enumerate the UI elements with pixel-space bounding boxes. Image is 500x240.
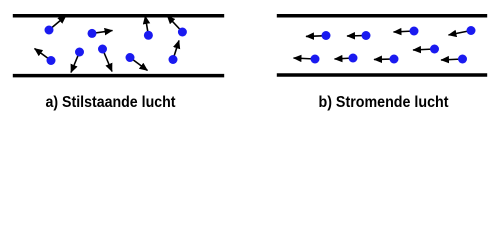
svg-text:a) Stilstaande lucht: a) Stilstaande lucht bbox=[46, 94, 177, 111]
svg-text:b) Stromende lucht: b) Stromende lucht bbox=[319, 94, 450, 111]
